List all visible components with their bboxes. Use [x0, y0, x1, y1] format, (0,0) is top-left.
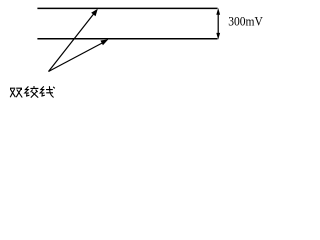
callout arrow to top wire [49, 9, 98, 72]
wire: bottom conductor line [37, 38, 217, 40]
char 线 right 戋 [46, 86, 55, 97]
char 线 radical 纟 [40, 86, 45, 96]
dimension arrow: vertical double-headed 300mV span [216, 8, 220, 40]
char 双 left 又 [10, 88, 15, 97]
wire: top conductor line [37, 7, 217, 9]
char 绞 right 交 [30, 86, 38, 98]
char 双 right 又 [16, 88, 22, 97]
label: 双绞线 (twisted pair) drawn as paths [10, 86, 55, 98]
char 绞 radical 纟 [25, 86, 30, 96]
svg-text:300mV: 300mV [228, 14, 263, 28]
callout arrow to bottom wire [49, 39, 109, 71]
